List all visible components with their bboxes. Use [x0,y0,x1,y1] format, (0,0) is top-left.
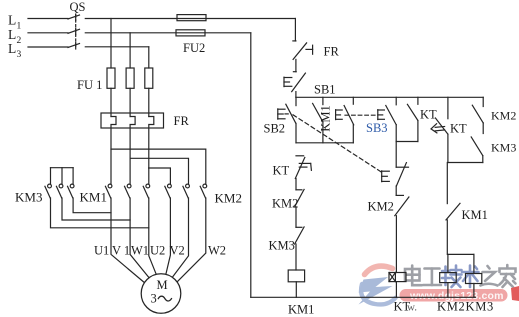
svg-text:U2: U2 [150,244,165,258]
svg-text:SB2: SB2 [264,122,286,136]
svg-text:SB3: SB3 [366,121,388,135]
svg-text:KM3: KM3 [15,190,42,205]
svg-text:KM1: KM1 [319,105,333,131]
svg-text:KM3: KM3 [491,141,516,155]
svg-text:KT: KT [273,164,290,178]
svg-text:FR: FR [324,45,340,59]
svg-text:1: 1 [17,22,22,32]
svg-text:FR: FR [174,114,190,128]
svg-text:V2: V2 [170,244,185,258]
svg-text:U1: U1 [94,244,109,258]
svg-text:KT: KT [394,300,411,314]
svg-text:KM2: KM2 [215,191,242,206]
svg-text:KM1: KM1 [288,303,314,317]
svg-text:QS: QS [70,0,86,14]
svg-text:L: L [8,27,16,42]
svg-text:KM1: KM1 [462,208,488,222]
svg-text:KM2: KM2 [368,200,394,214]
svg-text:3: 3 [151,292,157,306]
svg-text:W1: W1 [131,244,149,258]
svg-text:KM2KM3: KM2KM3 [437,300,494,314]
svg-text:W2: W2 [208,244,226,258]
svg-text:V 1: V 1 [112,244,130,258]
svg-text:KM1: KM1 [80,190,107,205]
svg-text:KM2: KM2 [491,109,516,123]
svg-text:L: L [8,13,16,28]
svg-text:3: 3 [17,50,22,60]
svg-text:2: 2 [17,36,22,46]
svg-text:FU 1: FU 1 [77,78,102,92]
svg-text:FU2: FU2 [183,41,205,55]
svg-text:SB1: SB1 [314,83,336,97]
svg-text:KM3: KM3 [269,239,295,253]
svg-text:KT: KT [420,108,437,122]
svg-text:M: M [157,278,168,292]
svg-text:L: L [8,41,16,56]
svg-text:KT: KT [450,122,467,136]
svg-text:KM2: KM2 [272,197,298,211]
